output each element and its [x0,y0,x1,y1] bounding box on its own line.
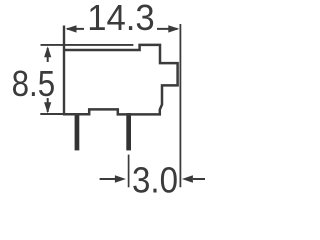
svg-text:14.3: 14.3 [87,0,155,38]
svg-text:3.0: 3.0 [132,159,178,198]
svg-text:8.5: 8.5 [12,63,56,104]
